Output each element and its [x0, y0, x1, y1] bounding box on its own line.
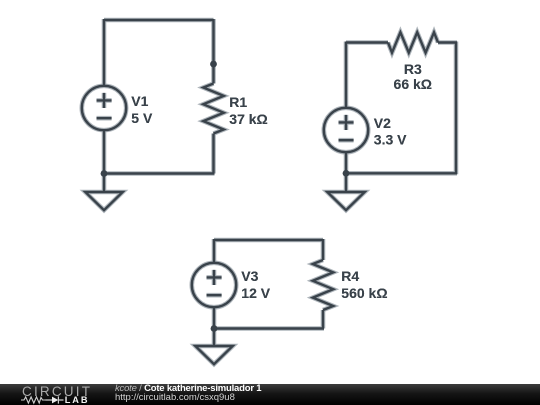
label V1 value: [131, 93, 153, 126]
wire: circuit3 right rail lower: [322, 310, 324, 329]
wire: circuit1 top rail: [104, 19, 214, 21]
svg-text:R3: R3: [404, 61, 422, 77]
svg-text:5 V: 5 V: [131, 110, 153, 126]
footer url line: [115, 392, 415, 403]
logo diode: [52, 397, 58, 404]
svg-text:12 V: 12 V: [241, 285, 270, 301]
wire: circuit3 bottom rail: [213, 327, 324, 329]
wire: circuit1 right rail lower: [212, 134, 214, 174]
CircuitLab logo: [0, 384, 100, 405]
logo resistor squiggle: [21, 397, 46, 403]
wire: circuit1 ground stub: [103, 174, 105, 193]
wire: circuit2 ground stub: [345, 173, 347, 192]
node dot on R1 top: [210, 61, 217, 68]
resistor R4: [313, 260, 333, 310]
voltage source V1: [82, 86, 126, 130]
wire: circuit3 left rail lower: [213, 307, 215, 328]
wire: circuit1 left rail upper: [103, 19, 105, 86]
label R3 value: [394, 61, 432, 92]
label V3 value: [241, 268, 270, 301]
wire: circuit2 left rail lower: [345, 152, 347, 173]
junction dot circuit2 ground node: [343, 170, 350, 177]
svg-text:66 kΩ: 66 kΩ: [394, 76, 432, 92]
wire: circuit1 bottom rail: [103, 172, 215, 174]
ground: circuit1: [85, 192, 122, 210]
svg-text:37 kΩ: 37 kΩ: [229, 111, 267, 127]
label R4 value: [341, 268, 387, 301]
svg-text:V1: V1: [131, 93, 148, 109]
wire: circuit1 right rail upper: [212, 19, 214, 84]
junction dot circuit1 ground node: [101, 170, 108, 177]
wire: circuit3 top rail: [214, 239, 323, 241]
svg-text:R4: R4: [341, 268, 359, 284]
footer title line: [115, 383, 415, 394]
wire: circuit1 left rail lower: [103, 130, 105, 173]
svg-text:3.3 V: 3.3 V: [374, 131, 407, 147]
wire: circuit3 right rail upper: [322, 239, 324, 260]
svg-text:560 kΩ: 560 kΩ: [341, 285, 387, 301]
wire: circuit2 right rail: [455, 42, 457, 175]
ground: circuit3: [195, 346, 232, 364]
svg-text:V3: V3: [241, 268, 258, 284]
wire: circuit3 left rail upper: [213, 239, 215, 263]
ground: circuit2: [327, 192, 364, 210]
resistor R3: [388, 32, 438, 52]
label R1 value: [229, 94, 267, 127]
svg-text:V2: V2: [374, 115, 391, 131]
voltage source V3: [192, 263, 236, 307]
svg-text:R1: R1: [229, 94, 247, 110]
wire: circuit2 left rail upper: [345, 42, 347, 109]
resistor R1: [203, 84, 223, 134]
wire: circuit2 top-right segment: [438, 41, 457, 43]
junction dot circuit3 ground node: [211, 325, 218, 332]
wire: circuit2 top-left segment: [346, 41, 388, 43]
wire: circuit3 ground stub: [213, 329, 215, 347]
wire: circuit2 bottom rail: [345, 172, 457, 174]
label V2 value: [374, 115, 407, 147]
svg-text:LAB: LAB: [65, 395, 90, 405]
voltage source V2: [324, 108, 368, 152]
footer bar: [0, 384, 540, 405]
